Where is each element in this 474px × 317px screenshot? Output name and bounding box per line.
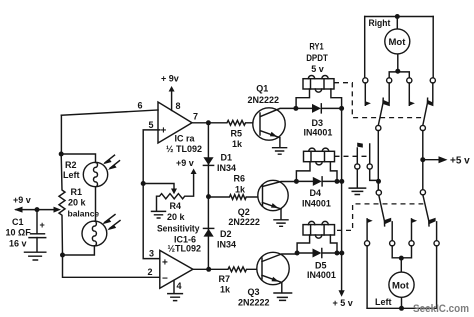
svg-text:2N2222: 2N2222 xyxy=(238,298,270,308)
svg-text:R7: R7 xyxy=(219,274,231,284)
diode D2 xyxy=(204,227,214,229)
upper contact stubs xyxy=(365,83,433,105)
svg-text:Mot: Mot xyxy=(389,37,407,48)
ground Q2 xyxy=(274,220,288,227)
ground R4 xyxy=(152,211,166,218)
svg-text:10 ΩF: 10 ΩF xyxy=(6,228,32,238)
relay coil RY2 xyxy=(296,148,337,179)
resistor R7 xyxy=(209,267,262,272)
wire left vertical xyxy=(60,115,62,154)
svg-text:+ 9v: + 9v xyxy=(161,74,179,84)
svg-text:+: + xyxy=(161,126,167,137)
+5 v tap right xyxy=(420,157,425,162)
svg-text:+: + xyxy=(40,220,45,230)
svg-text:8: 8 xyxy=(176,101,181,111)
svg-text:+5 v: +5 v xyxy=(450,156,470,167)
svg-text:6: 6 xyxy=(138,101,143,111)
svg-text:IN34: IN34 xyxy=(217,240,236,250)
node A junction C1 top xyxy=(35,207,40,212)
svg-text:½TL092: ½TL092 xyxy=(168,244,202,254)
upper movable arms xyxy=(378,98,427,125)
light arrows R2 xyxy=(105,155,120,168)
wire D1-D2 vertical xyxy=(207,123,209,269)
svg-text:SeekIC.com: SeekIC.com xyxy=(413,303,469,315)
svg-text:IC ra: IC ra xyxy=(175,134,196,144)
resistor R5 xyxy=(208,120,260,125)
bottom rail Left motor xyxy=(367,307,437,309)
wire op1 output xyxy=(192,122,209,124)
svg-text:R4: R4 xyxy=(170,201,182,211)
svg-text:R1: R1 xyxy=(71,187,83,197)
svg-text:−: − xyxy=(162,274,168,285)
capacitor C1 xyxy=(36,210,38,234)
diode D4 xyxy=(294,179,299,184)
+9 v arrow R4 xyxy=(191,169,197,175)
svg-text:Right: Right xyxy=(369,18,392,29)
wire top rail to pin 6 xyxy=(61,110,158,115)
wire R3 bottom to node C xyxy=(63,246,95,255)
svg-text:20 k: 20 k xyxy=(167,212,186,222)
svg-text:D3: D3 xyxy=(312,118,324,128)
resistor R6 xyxy=(209,195,263,200)
svg-text:3: 3 xyxy=(149,249,154,259)
svg-text:Mot: Mot xyxy=(392,281,410,292)
svg-text:IN4001: IN4001 xyxy=(304,128,333,138)
svg-text:20 k: 20 k xyxy=(68,198,87,208)
svg-text:C1: C1 xyxy=(12,217,24,227)
svg-text:2N2222: 2N2222 xyxy=(248,95,280,105)
lower contact fixed circles xyxy=(365,241,370,246)
upper contact fixed circles xyxy=(363,78,368,83)
svg-text:D2: D2 xyxy=(220,229,232,239)
svg-text:1k: 1k xyxy=(232,139,243,149)
wires below contacts xyxy=(367,246,437,308)
pin 4 stem xyxy=(173,281,175,294)
pin 8 stem and +9v arrow xyxy=(171,89,173,110)
photoresistor R2 xyxy=(83,162,107,186)
upper arm pivots xyxy=(376,125,381,130)
svg-text:Left: Left xyxy=(375,297,392,308)
transistor Q2 xyxy=(258,180,288,210)
node E junction xyxy=(206,120,211,125)
svg-text:5 v: 5 v xyxy=(311,64,324,74)
ground Q1 xyxy=(273,148,287,155)
svg-text:2N2222: 2N2222 xyxy=(228,217,260,227)
relay coil RY1 xyxy=(296,76,342,107)
transistor Q1 xyxy=(253,108,285,140)
svg-text:Q2: Q2 xyxy=(238,207,250,217)
dashed link RY3 xyxy=(337,204,423,231)
contact feet lower xyxy=(367,219,373,224)
wire op2 output xyxy=(193,268,209,270)
svg-text:+ 5 v: + 5 v xyxy=(333,298,353,308)
motor M2 Left xyxy=(400,258,402,308)
contact feet upper xyxy=(365,101,371,106)
svg-text:IN4001: IN4001 xyxy=(307,270,336,280)
potentiometer R1 xyxy=(59,154,65,255)
dashed link RY2 xyxy=(335,155,369,157)
lower arm pivots xyxy=(376,190,381,195)
node G junction op2 out xyxy=(206,267,211,272)
+5V rail xyxy=(341,108,343,290)
potentiometer R4 xyxy=(157,173,194,211)
op-amp U1A xyxy=(158,102,192,143)
svg-text:D4: D4 xyxy=(310,188,322,198)
wires to inner contacts (upper) xyxy=(389,72,409,78)
transistor Q3 xyxy=(257,252,289,284)
svg-text:½ TL092: ½ TL092 xyxy=(166,144,202,154)
photoresistor R3 xyxy=(82,221,107,246)
ground middle contact xyxy=(356,169,358,188)
svg-text:16 v: 16 v xyxy=(9,239,27,249)
svg-text:1k: 1k xyxy=(220,285,231,295)
node C junction R1 bottom xyxy=(60,253,65,258)
motor M1 Right xyxy=(396,17,399,72)
svg-text:R5: R5 xyxy=(231,129,243,139)
ground Q3 xyxy=(274,293,292,300)
svg-text:balance: balance xyxy=(68,209,100,219)
svg-text:2: 2 xyxy=(148,267,153,277)
svg-text:Left: Left xyxy=(63,170,80,180)
wire pin5 to pin3 vertical xyxy=(143,130,160,259)
svg-text:RY1: RY1 xyxy=(309,42,323,52)
svg-text:Q1: Q1 xyxy=(256,84,268,94)
svg-text:Q3: Q3 xyxy=(248,287,260,297)
wire R4 wiper arrow xyxy=(143,184,174,190)
diode D5 xyxy=(295,251,300,256)
+9 v supply arrow left xyxy=(16,209,37,211)
svg-text:+9 v: +9 v xyxy=(176,158,194,168)
svg-text:DPDT: DPDT xyxy=(306,53,328,63)
svg-text:+: + xyxy=(162,258,168,269)
middle contact stub xyxy=(370,144,379,180)
wire to R1 wiper xyxy=(37,209,54,211)
middle contact arm (RY2) xyxy=(356,148,358,164)
wire node C to pin 2 xyxy=(63,255,160,277)
light arrows R3 xyxy=(105,215,121,229)
diode D3 xyxy=(293,106,298,111)
svg-text:R2: R2 xyxy=(65,160,77,170)
svg-text:1k: 1k xyxy=(235,185,246,195)
pole verticals xyxy=(378,131,423,190)
wire node B to R2 top xyxy=(61,154,95,163)
svg-text:+9 v: +9 v xyxy=(13,195,31,205)
Right motor top rail xyxy=(365,16,434,18)
lower movable arms xyxy=(379,195,429,226)
svg-text:4: 4 xyxy=(177,281,182,291)
+5 v arrow bottom xyxy=(339,290,345,297)
svg-text:D1: D1 xyxy=(221,153,233,163)
relay coil RY3 xyxy=(297,221,337,250)
svg-text:Sensitivity: Sensitivity xyxy=(157,224,200,234)
svg-text:R6: R6 xyxy=(234,174,246,184)
svg-text:D5: D5 xyxy=(315,261,327,271)
node B junction R1/R2 top xyxy=(59,152,64,157)
wire R2 to R3 xyxy=(94,187,95,222)
node F junction R6 xyxy=(206,194,211,199)
svg-text:IN4001: IN4001 xyxy=(302,199,331,209)
ground C1 xyxy=(25,252,46,260)
node D junction R4 wiper xyxy=(141,181,146,186)
dashed link RY1 xyxy=(334,83,423,118)
diode D1 xyxy=(203,157,213,165)
wires to outer contacts (upper) xyxy=(365,17,434,78)
svg-text:5: 5 xyxy=(149,120,154,130)
svg-text:7: 7 xyxy=(193,112,198,122)
lower contact stubs xyxy=(367,219,437,241)
svg-text:IN34: IN34 xyxy=(217,163,236,173)
ground pin 4 xyxy=(168,294,183,301)
op-amp U1B xyxy=(160,250,193,288)
